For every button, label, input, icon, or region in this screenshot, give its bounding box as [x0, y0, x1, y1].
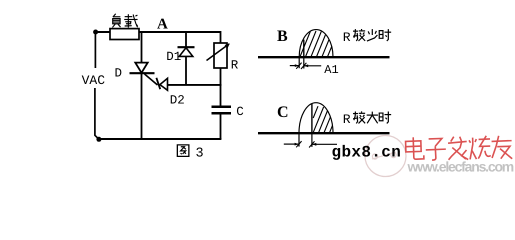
dimension extension lines under C — [298, 134, 300, 147]
svg-text:B: B — [277, 28, 288, 45]
wire: load box to right corner (top rail) — [139, 31, 221, 33]
node: VAC top terminal dot — [93, 30, 98, 35]
wire: top-right corner down to R — [220, 31, 222, 43]
wire: bottom rail — [99, 138, 221, 140]
svg-text:A1: A1 — [324, 63, 338, 77]
label 负载 char 载 — [124, 14, 137, 27]
label R较大时 char 时 — [379, 112, 391, 124]
label R较大时 char 大 — [367, 112, 378, 124]
axis line C — [258, 132, 390, 134]
watermark 电子发烧友 char 烧 — [469, 136, 491, 160]
watermark 电子发烧友 char 友 — [491, 135, 512, 159]
wire: R bottom down to capacitor — [220, 68, 222, 106]
waveform C firing edge — [311, 104, 313, 134]
oblique tick left (B) — [296, 63, 301, 69]
rheostat R box — [214, 43, 227, 68]
watermark 电子发烧友 char 电 — [405, 137, 423, 160]
wire: capacitor down to bottom rail — [220, 113, 222, 139]
svg-text:gbx8.cn: gbx8.cn — [332, 143, 402, 161]
thyristor D (SCR) triangle — [135, 63, 147, 73]
wire: node A down to SCR anode — [141, 32, 143, 63]
wire: SCR cathode down to bottom rail — [141, 73, 143, 139]
svg-text:C: C — [236, 105, 244, 119]
label 负载 char 负 — [112, 14, 120, 28]
wire: gate mid rail D2 to RC junction — [168, 84, 222, 86]
svg-text:R: R — [231, 58, 239, 72]
node: VAC bottom terminal dot — [96, 137, 101, 142]
waveform B hatching — [294, 31, 344, 58]
thyristor D cathode bar — [130, 72, 155, 74]
wire: VAC left rail lower segment — [95, 88, 99, 139]
diode D2 cathode bar (tilted) — [156, 78, 160, 89]
svg-text:D: D — [115, 67, 123, 81]
watermark logo circle — [365, 136, 406, 177]
capacitor C bottom plate — [212, 112, 232, 115]
capacitor C top plate — [212, 106, 232, 109]
wire: SCR gate diagonal to D2 — [145, 74, 158, 85]
dimension line left with arrow (C) — [284, 143, 299, 145]
label R较少时 char 少 — [367, 29, 377, 41]
diode D1 cathode bar — [178, 46, 195, 48]
oblique tick right (C) — [309, 141, 314, 147]
waveform B firing edge — [303, 40, 305, 58]
label R较少时 char 较 — [353, 29, 365, 41]
resistor 负载 (load) box — [110, 29, 139, 40]
label R较少时 char 时 — [379, 29, 391, 41]
svg-text:C: C — [277, 104, 289, 121]
svg-text:VAC: VAC — [82, 73, 106, 88]
oblique tick right (B) — [301, 63, 306, 69]
svg-text:A: A — [157, 17, 168, 33]
wire: node A rail down to D1 — [185, 32, 187, 47]
wire: VAC left rail upper segment — [94, 34, 96, 69]
watermark 电子发烧友 char 发 — [448, 136, 468, 160]
svg-text:D1: D1 — [166, 50, 181, 64]
dimension line right with arrow (C) — [312, 143, 337, 145]
axis line B — [258, 56, 390, 58]
diode D1 triangle (pointing up) — [179, 48, 193, 57]
diode D2 triangle (pointing left) — [160, 78, 168, 90]
wire: D1 anode down to mid rail — [185, 56, 187, 85]
svg-text:R: R — [343, 112, 351, 127]
rheostat R arrow — [207, 44, 230, 61]
waveform C dome outline — [299, 103, 333, 133]
waveform B dome outline — [299, 30, 333, 57]
watermark 电子发烧友 char 子 — [425, 138, 446, 160]
waveform C hatching — [313, 106, 346, 134]
dimension line left with arrow (B) — [290, 65, 299, 67]
label 图 3 char 图 — [177, 145, 189, 157]
svg-text:R: R — [343, 30, 351, 45]
wire: terminal to load resistor — [96, 31, 110, 33]
oblique tick left (C) — [296, 141, 301, 147]
svg-text:D2: D2 — [170, 94, 185, 108]
label R较大时 char 较 — [353, 111, 365, 123]
dimension extension lines under B — [298, 58, 300, 69]
dimension line right with arrow (B) — [304, 65, 321, 67]
svg-text:www.elecfans.com: www.elecfans.com — [407, 159, 514, 175]
svg-text:3: 3 — [196, 147, 204, 162]
